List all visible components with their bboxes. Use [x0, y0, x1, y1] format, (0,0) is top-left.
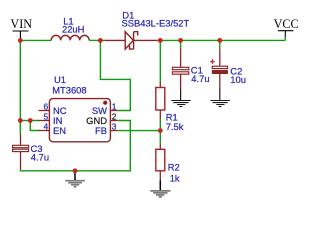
wire VIN rail down left side — [19, 40, 21, 120]
wire FB node to R2 — [159, 131, 161, 144]
ground R2 (power ground) — [150, 180, 170, 197]
wire left rail to C3 — [19, 121, 21, 135]
wire to pin 5 IN — [30, 120, 39, 122]
port VCC — [274, 17, 299, 40]
pin name IN — [53, 115, 62, 126]
value 7.5k — [166, 121, 184, 132]
ground rail (power ground) — [65, 171, 85, 187]
capacitor C1 — [172, 48, 188, 89]
junction VIN node — [18, 38, 23, 43]
value 4.7u — [191, 73, 209, 84]
pin number 3 — [112, 122, 117, 132]
svg-text:SSB43L-E3/52T: SSB43L-E3/52T — [122, 18, 190, 29]
pin 1 SW stub — [110, 110, 117, 112]
label U1 — [54, 74, 66, 85]
svg-text:EN: EN — [53, 125, 66, 136]
port VIN — [10, 17, 32, 38]
diode D1 SSB43L-E3/52T — [105, 32, 157, 49]
junction node C1 — [178, 38, 183, 43]
svg-text:3: 3 — [112, 122, 117, 132]
junction node C2 — [217, 38, 222, 43]
svg-text:4: 4 — [43, 122, 48, 132]
svg-text:FB: FB — [95, 125, 107, 136]
inductor L1 — [51, 35, 89, 40]
value 4.7u (C3) — [31, 152, 49, 163]
wire node to C2 — [219, 40, 221, 48]
pin 1 marker dot — [103, 101, 107, 105]
svg-text:VCC: VCC — [274, 17, 299, 31]
IC U1 MT3608 body — [49, 99, 110, 142]
label C1 — [191, 65, 203, 76]
pin 5 IN stub — [39, 120, 50, 122]
pin number 5 — [43, 112, 48, 122]
wire R1 to FB node — [159, 119, 161, 131]
wire SW net: node down around IC to pin 1 — [100, 40, 130, 110]
svg-text:10u: 10u — [230, 74, 246, 85]
wire node to C1 — [180, 40, 182, 48]
svg-text:5: 5 — [43, 112, 48, 122]
wire L1 to node SW — [89, 39, 100, 41]
label R1 — [166, 112, 178, 123]
svg-text:MT3608: MT3608 — [52, 85, 86, 96]
label L1 — [63, 15, 73, 26]
junction node SW top — [98, 38, 103, 43]
svg-text:U1: U1 — [54, 74, 66, 85]
ground C1 (earth) — [171, 89, 191, 106]
value 10u — [230, 74, 246, 85]
pin 3 FB stub — [110, 130, 117, 132]
pin 6 NC stub — [39, 110, 50, 112]
svg-text:22uH: 22uH — [62, 23, 84, 34]
wire node to D1 anode — [100, 39, 105, 41]
capacitor C3 — [13, 134, 29, 170]
svg-text:1: 1 — [112, 102, 117, 112]
pin number 1 — [112, 102, 117, 112]
value 1k — [170, 172, 180, 183]
label C3 — [31, 143, 43, 154]
resistor R1 — [156, 82, 165, 120]
svg-text:2: 2 — [112, 112, 117, 122]
pin number 4 — [43, 122, 48, 132]
wire bottom ground rail — [21, 121, 131, 171]
value MT3608 — [52, 85, 86, 96]
pin number 2 — [112, 112, 117, 122]
svg-text:R2: R2 — [168, 161, 180, 172]
pin 4 EN stub — [39, 130, 50, 132]
junction ground rail — [73, 168, 78, 173]
pin name EN — [53, 125, 66, 136]
wire VIN to L1 — [20, 39, 51, 41]
junction left rail IN — [18, 118, 23, 123]
label R2 — [168, 161, 180, 172]
pin name GND — [86, 115, 107, 126]
svg-text:6: 6 — [43, 102, 48, 112]
wire rail to IN split node — [20, 120, 30, 122]
label C2 — [230, 66, 242, 77]
wire D1 cathode to VCC rail — [157, 39, 285, 41]
svg-text:VIN: VIN — [10, 17, 32, 31]
value 22uH — [62, 23, 84, 34]
wire node to R1 — [159, 40, 161, 81]
svg-text:1k: 1k — [170, 172, 180, 183]
resistor R2 — [156, 144, 165, 181]
pin 2 GND stub — [110, 120, 117, 122]
junction node R1 — [158, 38, 163, 43]
wire FB node to pin 3 — [118, 130, 161, 132]
junction node FB — [158, 128, 163, 133]
wire jog to pin 4 EN — [30, 121, 39, 131]
pin name NC — [53, 105, 67, 116]
pin name FB — [95, 125, 107, 136]
svg-text:4.7u: 4.7u — [191, 73, 209, 84]
pin number 6 — [43, 102, 48, 112]
junction IN split node — [28, 118, 33, 123]
value SSB43L-E3/52T — [122, 18, 190, 29]
label D1 — [122, 10, 134, 21]
svg-text:7.5k: 7.5k — [166, 121, 184, 132]
pin name SW — [92, 105, 107, 116]
ground C2 (earth) — [210, 89, 230, 106]
capacitor C2 polarized — [210, 48, 227, 89]
svg-text:4.7u: 4.7u — [31, 152, 49, 163]
